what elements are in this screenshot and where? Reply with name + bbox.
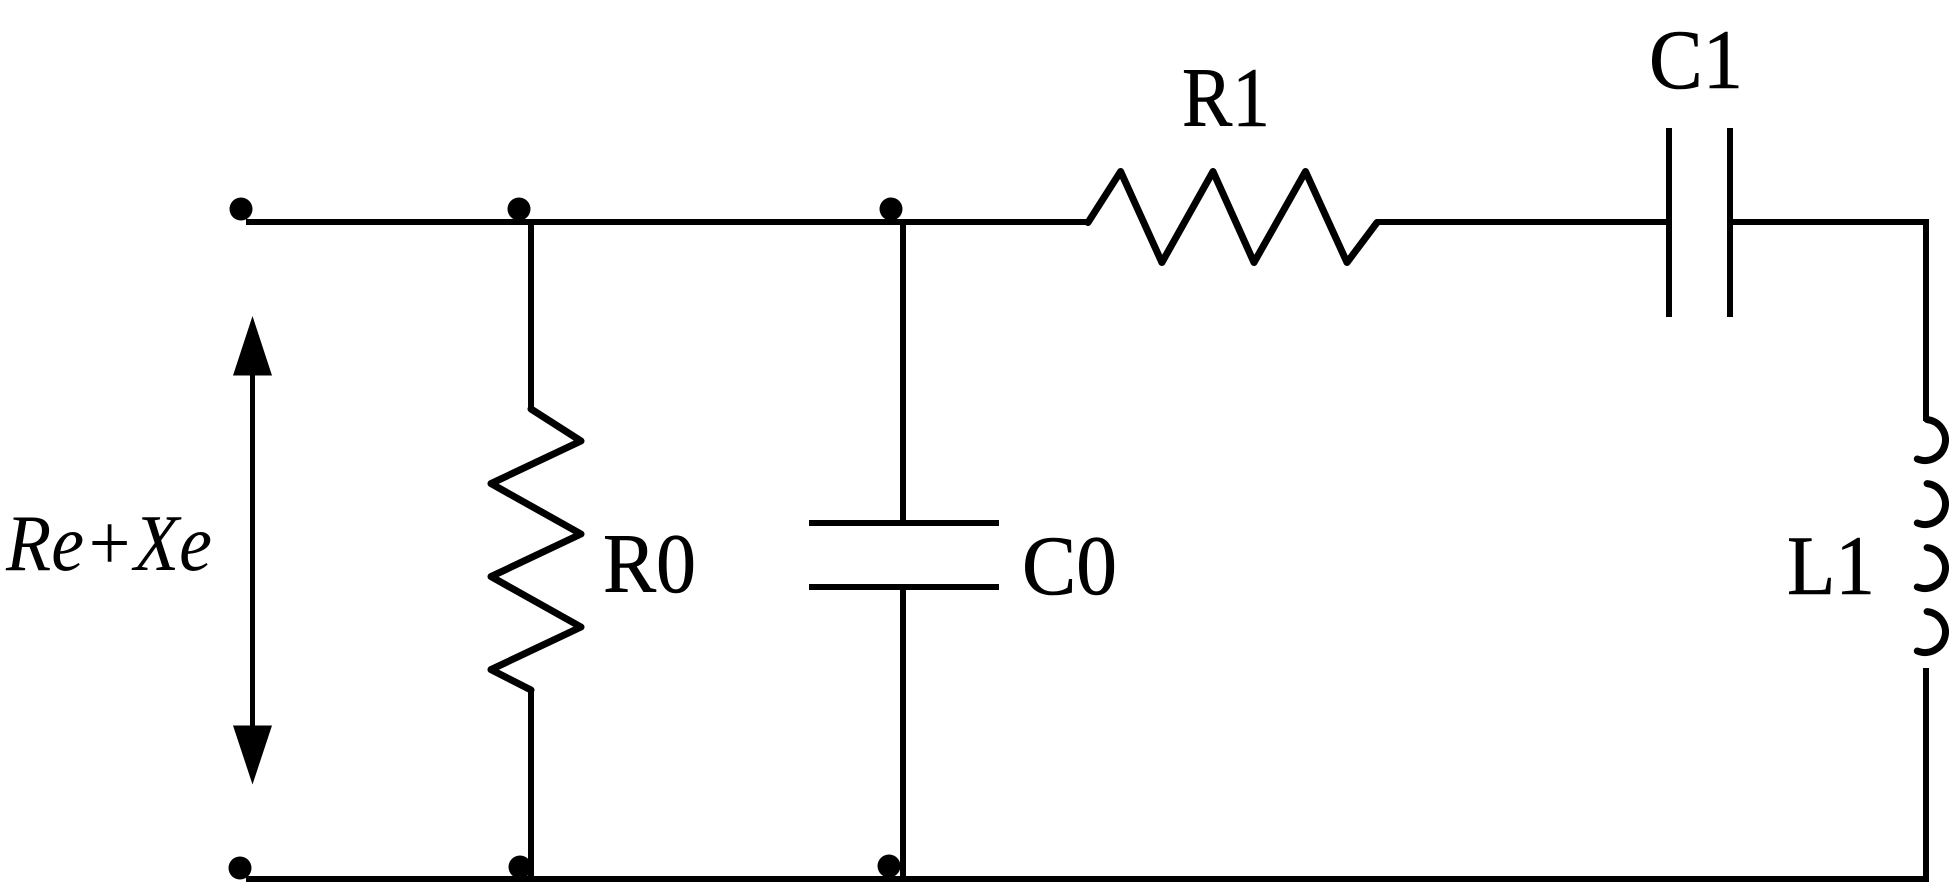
- capacitor C1: [1669, 128, 1730, 317]
- wire: top rail, junction A to junction B: [531, 219, 903, 225]
- svg-text:L1: L1: [1787, 519, 1875, 613]
- node dot: bottom junction A (R0 branch): [509, 856, 532, 879]
- node dot: bottom junction B (C0 branch): [878, 855, 901, 878]
- resistor R1: [1088, 172, 1377, 263]
- node dot: top input terminal: [230, 198, 253, 221]
- wire: C0 to bottom rail: [900, 587, 906, 879]
- svg-text:R1: R1: [1182, 51, 1270, 145]
- wire: L1 to bottom-right corner: [1923, 668, 1929, 879]
- wire: bottom rail: [246, 876, 1929, 882]
- impedance arrow Re+Xe: [233, 316, 272, 785]
- svg-text:C1: C1: [1649, 13, 1743, 107]
- wire: R0 to bottom rail: [528, 690, 534, 879]
- wire: top rail, junction B to R1: [903, 219, 1090, 225]
- svg-text:Re+Xe: Re+Xe: [5, 500, 212, 588]
- wire: top rail to R0: [528, 222, 534, 409]
- capacitor C0: [809, 523, 999, 587]
- inductor L1: [1917, 420, 1945, 653]
- svg-text:R0: R0: [603, 517, 696, 611]
- node dot: top junction A (R0 branch): [508, 198, 531, 221]
- wire: top rail to C0: [900, 222, 906, 523]
- node dot: top junction B (C0 branch): [880, 198, 903, 221]
- node dot: bottom input terminal: [229, 857, 252, 880]
- svg-text:C0: C0: [1022, 519, 1117, 613]
- wire: R1 to C1: [1377, 219, 1669, 225]
- wire: top rail, input terminal to junction A: [246, 219, 531, 225]
- resistor R0: [491, 409, 581, 690]
- wire: C1 to top-right corner down to L1: [1730, 222, 1926, 421]
